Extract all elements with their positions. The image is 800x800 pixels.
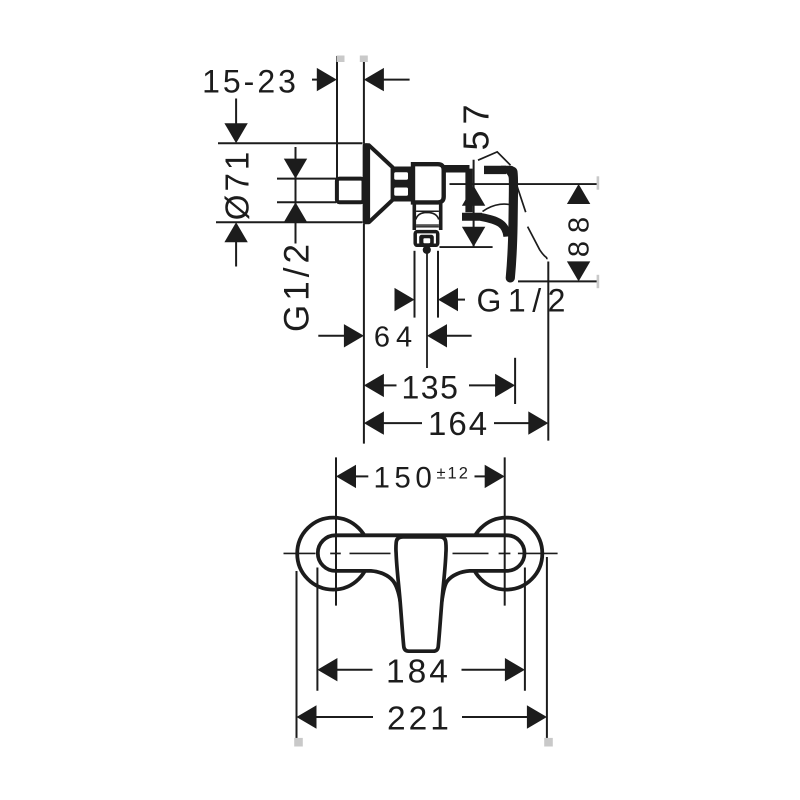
svg-text:150: 150 — [374, 461, 437, 494]
center axis line — [450, 183, 598, 185]
dim 150 right extension / center line — [504, 457, 506, 605]
outlet upper section — [412, 203, 416, 230]
connector dim bottom extension — [277, 201, 336, 203]
dim 184 — [317, 658, 337, 681]
connector dim top extension — [277, 178, 336, 180]
svg-text:135: 135 — [402, 369, 460, 405]
crosshair tick right — [499, 552, 511, 554]
dim 221 extensions — [296, 571, 298, 739]
gray square left — [294, 738, 303, 747]
dim 150 left extension / center line — [335, 457, 337, 605]
wall line right — [363, 56, 365, 144]
crosshair tick left — [330, 552, 341, 554]
svg-text:G1/2: G1/2 — [477, 283, 572, 319]
outlet dome — [416, 212, 439, 219]
dim 184 extensions — [316, 568, 318, 691]
outlet flange lines — [416, 224, 439, 226]
raised handle thin outline — [478, 152, 511, 165]
svg-text:221: 221 — [387, 700, 452, 737]
svg-text:184: 184 — [386, 653, 451, 690]
dim O71 bottom arrow — [224, 222, 247, 242]
escutcheon circle left — [297, 518, 369, 590]
handle top bar — [484, 166, 506, 174]
connector dim stem — [295, 147, 297, 244]
dim 57 down arrow — [462, 227, 485, 247]
handle grip front view — [396, 537, 446, 651]
leader from 15-23 down to escutcheon top — [235, 99, 237, 126]
valve housing bottom bar — [462, 213, 482, 221]
dim 221 — [297, 705, 317, 728]
valve housing top bar — [444, 165, 470, 173]
svg-text:G1/2: G1/2 — [278, 240, 317, 332]
dim O71 top extension line — [218, 142, 363, 144]
handle inner thin curve — [483, 204, 511, 211]
svg-text:164: 164 — [428, 405, 489, 442]
gray tick top — [597, 176, 600, 189]
body bar capsule with skirt — [318, 535, 525, 601]
svg-text:57: 57 — [456, 98, 497, 150]
dim 135 right extension — [514, 358, 516, 404]
dim 88 up arrow — [567, 184, 590, 204]
escutcheon cone side view — [365, 145, 393, 222]
dim 57 up arrow — [462, 186, 485, 206]
gray wall tick left — [337, 56, 345, 63]
svg-text:88: 88 — [564, 209, 596, 257]
svg-text:15-23: 15-23 — [202, 64, 299, 100]
handle corner patch — [501, 166, 518, 182]
dim 88 down arrow — [567, 261, 590, 281]
dim 135 — [364, 374, 384, 397]
handle underside curve — [481, 217, 507, 237]
dim 15-23 line left part — [312, 79, 319, 81]
gray square right — [544, 738, 553, 747]
gray tick bottom — [597, 275, 600, 288]
svg-text:Ø71: Ø71 — [219, 149, 256, 220]
handle grip closed — [510, 172, 513, 278]
svg-text:64: 64 — [374, 321, 418, 353]
dim 164 right extension — [547, 262, 549, 441]
wall line left — [336, 56, 338, 178]
raised grip thin line — [517, 187, 547, 259]
valve housing right edge — [465, 169, 472, 213]
center line segments — [284, 552, 316, 554]
connector dim bottom arrow — [284, 202, 307, 222]
dim 15-23 line right part — [383, 79, 410, 81]
dim 88 bottom extension — [518, 280, 598, 282]
neck block — [392, 167, 413, 202]
connector dim top arrow — [284, 159, 307, 179]
outlet nut — [415, 232, 438, 246]
dim 57 stem — [473, 160, 475, 247]
escutcheon back plate — [363, 143, 370, 224]
gray wall tick right — [360, 56, 368, 63]
svg-text:±12: ±12 — [437, 465, 470, 483]
outlet extension lines — [414, 251, 416, 318]
dim 64 — [318, 335, 345, 337]
dim 164 — [364, 411, 384, 434]
outlet inner line — [416, 210, 439, 212]
escutcheon circle right — [470, 518, 542, 590]
dim O71 bottom extension line — [216, 221, 363, 223]
wall union connector rect — [337, 179, 364, 203]
outlet tip — [423, 246, 431, 254]
outlet G12 dim arrows — [395, 288, 415, 311]
dim 150 — [336, 465, 356, 488]
outlet bottom line — [440, 246, 493, 248]
body main — [413, 164, 444, 202]
